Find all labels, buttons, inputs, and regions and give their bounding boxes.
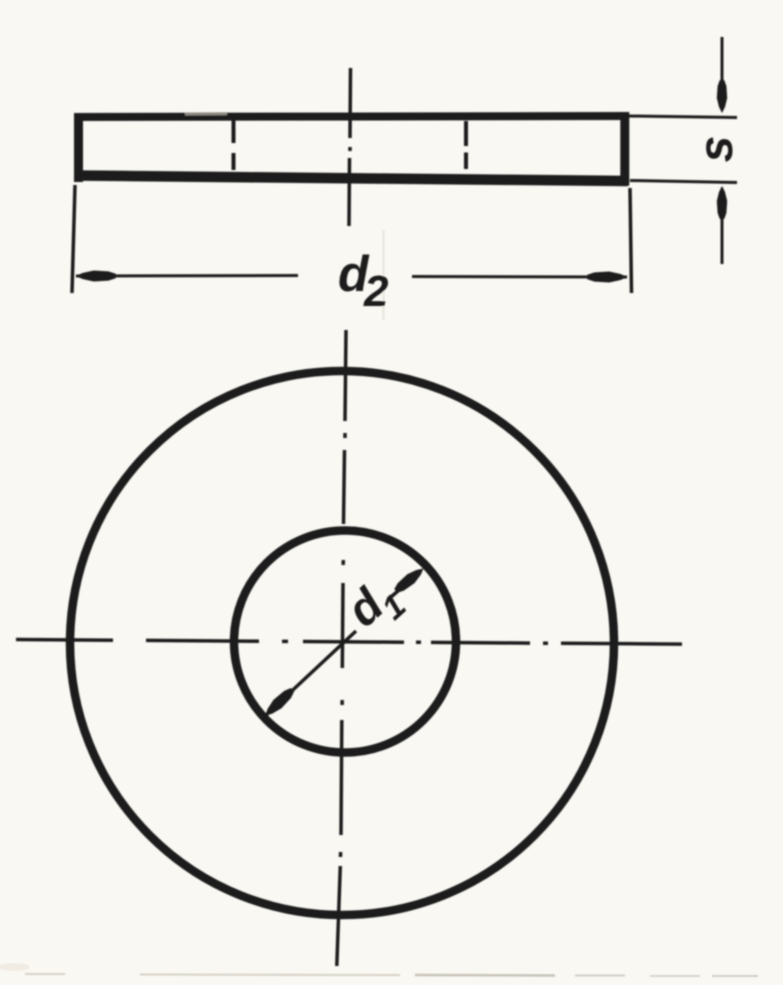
s dimension: top extension line (628, 116, 737, 118)
vertical centerline (plan view) (337, 330, 346, 966)
hidden line (hole right edge) (464, 121, 468, 169)
s dimension: bottom extension line (630, 181, 737, 183)
horizontal centerline (16, 640, 682, 645)
s dimension line lower with up arrow (721, 188, 724, 264)
washer section: bottom edge (74, 176, 628, 182)
inner circle (234, 531, 456, 753)
faint scan streak at bottom (25, 974, 400, 975)
s dimension line upper with down arrow (721, 37, 724, 110)
d2 dimension: right extension line (630, 188, 632, 293)
d2 dimension line right segment with right arrow (412, 275, 627, 279)
hidden line (hole left edge) (232, 120, 236, 170)
svg-text:2: 2 (363, 267, 389, 316)
faint vertical scan scratch near d2 label (383, 230, 385, 320)
d1 dimension: upper-right arrow with stub (391, 571, 421, 597)
outer circle (70, 371, 614, 915)
washer section: left edge (74, 113, 83, 182)
washer section: right edge (620, 112, 629, 186)
label d1 (rotated along dimension line) (336, 567, 413, 645)
d2 dimension line left segment with left arrow (76, 274, 298, 278)
vertical centerline (section view) (349, 68, 351, 226)
d1 dimension: lower-left radial line with arrow (265, 631, 356, 716)
scan fade on top edge (185, 112, 227, 115)
d2 dimension: left extension line (72, 185, 75, 293)
washer section: top edge (74, 116, 627, 117)
svg-text:s: s (690, 136, 743, 163)
